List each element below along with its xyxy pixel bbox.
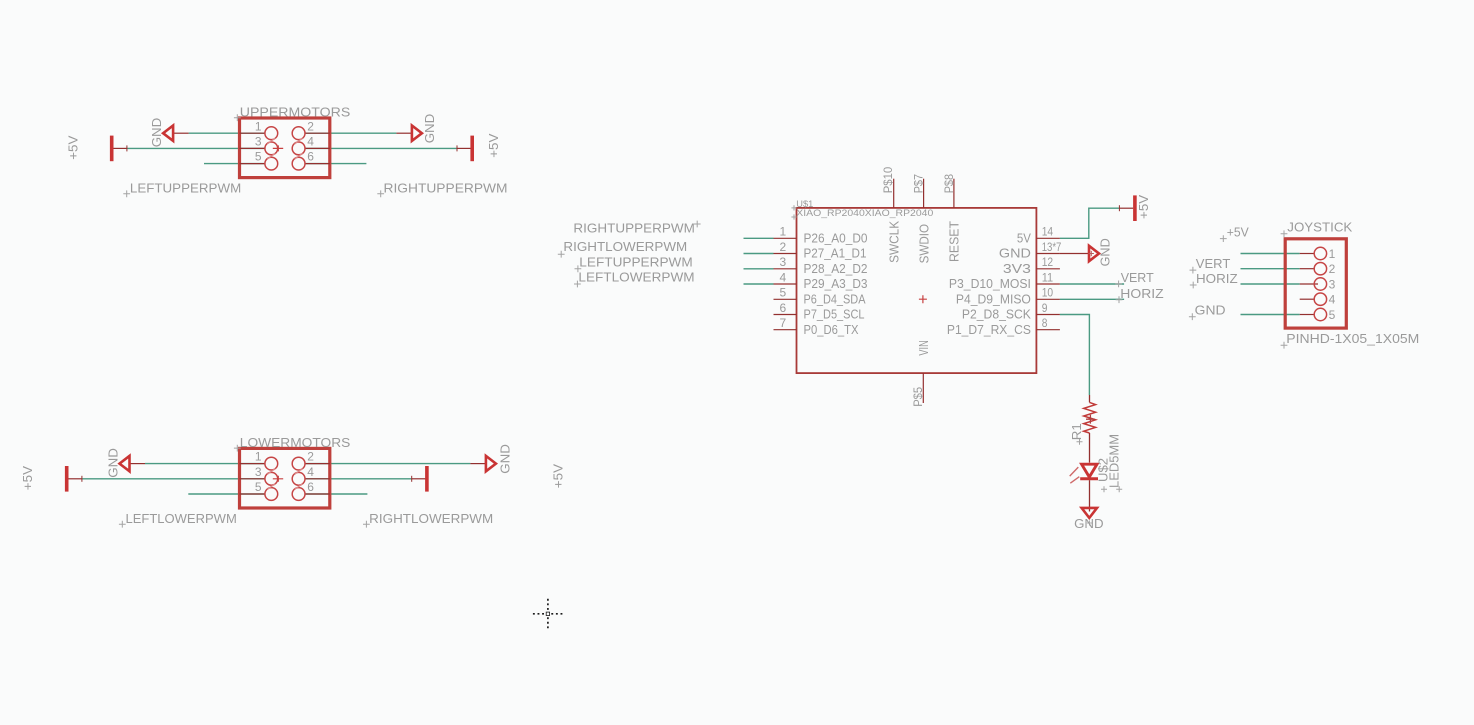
U$1 pin 6 P7_D5_SCL xyxy=(774,314,797,316)
wire net RIGHTUPPERPWM to U$1 pin 1 xyxy=(744,237,774,239)
svg-text:+5V: +5V xyxy=(65,135,80,160)
svg-text:GND: GND xyxy=(1074,516,1104,531)
pin 4 of UPPERMOTORS xyxy=(305,147,330,149)
svg-text:PINHD-1X05_1X05M: PINHD-1X05_1X05M xyxy=(1286,331,1419,346)
svg-text:VIN: VIN xyxy=(916,340,931,355)
svg-text:2: 2 xyxy=(1329,262,1336,276)
svg-text:HORIZ: HORIZ xyxy=(1196,271,1238,286)
connector JOYSTICK body xyxy=(1285,239,1346,328)
svg-text:12: 12 xyxy=(1042,255,1054,269)
svg-text:LOWERMOTORS: LOWERMOTORS xyxy=(240,435,351,450)
wire LEFTLOWERPWM net row3 left xyxy=(188,493,265,495)
U$1 pin 14 5V xyxy=(1036,237,1060,239)
svg-text:2: 2 xyxy=(307,119,314,133)
net label GND (at JOYSTICK) xyxy=(1189,313,1196,320)
svg-text:SWCLK: SWCLK xyxy=(887,221,902,263)
svg-text:P$5: P$5 xyxy=(911,387,925,407)
wire net +5V from U$1 pin 14 xyxy=(1060,208,1120,238)
svg-text:3: 3 xyxy=(255,465,262,479)
net label LEFTUPPERPWM (at U$1) xyxy=(575,265,582,272)
wire LEFTUPPERPWM net row3 left xyxy=(204,163,265,165)
svg-text:1: 1 xyxy=(1329,247,1336,261)
svg-text:6: 6 xyxy=(779,301,786,315)
pin 1 of LOWERMOTORS xyxy=(240,463,265,465)
svg-text:11: 11 xyxy=(1042,270,1054,284)
svg-text:P1_D7_RX_CS: P1_D7_RX_CS xyxy=(947,322,1031,337)
net label HORIZ (at JOYSTICK) xyxy=(1190,282,1197,289)
wire +5V net UPPERMOTORS row2 left xyxy=(127,147,265,149)
svg-text:+5V: +5V xyxy=(1227,224,1249,239)
part origin cross LOWERMOTORS xyxy=(273,476,283,482)
wire net RIGHTLOWERPWM to U$1 pin 2 xyxy=(744,253,774,255)
svg-text:P$8: P$8 xyxy=(942,174,956,194)
svg-text:GND: GND xyxy=(1195,302,1226,317)
pin 2 of LOWERMOTORS xyxy=(305,463,330,465)
svg-text:3: 3 xyxy=(779,255,786,269)
JOYSTICK pin 1 xyxy=(1300,253,1315,255)
pin 2 of UPPERMOTORS xyxy=(305,132,330,134)
svg-text:5: 5 xyxy=(255,480,262,494)
svg-text:GND: GND xyxy=(1097,238,1112,266)
power symbol +5V right of LOWERMOTORS xyxy=(412,478,427,480)
svg-text:P26_A0_D0: P26_A0_D0 xyxy=(804,231,868,246)
svg-text:7: 7 xyxy=(779,316,786,330)
value XIAO_RP2040XIAO_RP2040 xyxy=(791,214,796,219)
U$1 pin 7 P0_D6_TX xyxy=(774,329,797,331)
connector LOWERMOTORS body xyxy=(240,448,330,508)
U$1 top pin P$10 xyxy=(893,179,895,208)
origin crosshair xyxy=(533,599,563,629)
wire net GND to JOYSTICK pin 5 xyxy=(1241,314,1300,316)
svg-text:6: 6 xyxy=(307,480,314,494)
LED U$2 LED5MM xyxy=(1082,464,1097,477)
svg-text:1: 1 xyxy=(255,119,262,133)
svg-text:4: 4 xyxy=(307,465,314,479)
JOYSTICK pin 2 xyxy=(1300,268,1315,270)
power symbol +5V left of LOWERMOTORS xyxy=(67,478,82,480)
pin 1 of UPPERMOTORS xyxy=(240,132,265,134)
svg-text:14: 14 xyxy=(1042,225,1054,239)
wire net HORIZ from U$1 pin 10 xyxy=(1060,298,1124,300)
svg-text:RIGHTLOWERPWM: RIGHTLOWERPWM xyxy=(369,511,493,526)
ground symbol GND at U$1 pin 13 xyxy=(1060,253,1089,255)
pin junction marks LOWERMOTORS xyxy=(267,469,275,475)
pin 6 of UPPERMOTORS xyxy=(305,163,330,165)
JOYSTICK pin 5 xyxy=(1300,314,1315,316)
net label LEFTLOWERPWM xyxy=(119,521,126,528)
svg-text:5: 5 xyxy=(255,150,262,164)
power symbol +5V right of UPPERMOTORS xyxy=(457,147,472,149)
svg-text:RIGHTUPPERPWM: RIGHTUPPERPWM xyxy=(573,221,695,236)
svg-text:5: 5 xyxy=(1329,308,1336,322)
svg-text:P2_D8_SCK: P2_D8_SCK xyxy=(962,307,1031,322)
ground symbol GND left of LOWERMOTORS xyxy=(130,463,145,465)
connector JOYSTICK title label xyxy=(1281,230,1288,237)
svg-text:10: 10 xyxy=(1042,286,1054,300)
U$1 pin 13*7 GND xyxy=(1036,253,1060,255)
svg-text:3V3: 3V3 xyxy=(1003,261,1031,276)
svg-text:+5V: +5V xyxy=(20,466,35,491)
svg-text:GND: GND xyxy=(105,448,120,478)
wire GND net UPPERMOTORS row1 left xyxy=(189,132,265,134)
svg-text:VERT: VERT xyxy=(1121,270,1154,285)
wire net VERT from U$1 pin 11 xyxy=(1060,283,1124,285)
connector UPPERMOTORS title label xyxy=(234,114,241,121)
refdes U$1 xyxy=(791,205,796,210)
U$1 pin 3 P28_A2_D2 xyxy=(774,268,797,270)
svg-text:SWDIO: SWDIO xyxy=(917,224,932,264)
svg-text:P$10: P$10 xyxy=(881,166,895,193)
svg-text:RESET: RESET xyxy=(947,221,962,262)
U$1 top pin P$8 xyxy=(953,179,955,208)
net label VERT (at JOYSTICK) xyxy=(1190,267,1197,274)
wire RIGHTUPPERPWM net row3 right xyxy=(305,163,366,165)
svg-text:VERT: VERT xyxy=(1196,256,1231,271)
svg-text:3: 3 xyxy=(1329,277,1336,291)
svg-text:4: 4 xyxy=(779,270,786,284)
ground symbol GND left of UPPERMOTORS xyxy=(173,132,188,134)
U$1 pin 12 3V3 xyxy=(1036,268,1060,270)
U$1 top pin P$7 xyxy=(923,179,925,208)
svg-text:LED5MM: LED5MM xyxy=(1107,434,1122,488)
svg-text:RIGHTLOWERPWM: RIGHTLOWERPWM xyxy=(563,239,687,254)
svg-text:RIGHTUPPERPWM: RIGHTUPPERPWM xyxy=(384,181,508,196)
power symbol +5V (at U$1) xyxy=(1119,207,1133,209)
U$1 pin 2 P27_A1_D1 xyxy=(774,253,797,255)
U$1 pin 10 P4_D9_MISO xyxy=(1036,298,1060,300)
connector UPPERMOTORS body xyxy=(240,118,330,178)
svg-text:P29_A3_D3: P29_A3_D3 xyxy=(804,276,868,291)
value PINHD-1X05_1X05M xyxy=(1281,342,1288,349)
wire +5V net LOWERMOTORS row2 left xyxy=(82,478,265,480)
svg-text:R1: R1 xyxy=(1069,423,1084,440)
svg-text:4: 4 xyxy=(307,135,314,149)
U$1 pin 9 P2_D8_SCK xyxy=(1036,314,1060,316)
svg-text:P28_A2_D2: P28_A2_D2 xyxy=(804,261,868,276)
U$1 pin 1 P26_A0_D0 xyxy=(774,237,797,239)
svg-text:P$7: P$7 xyxy=(912,174,926,194)
part origin cross UPPERMOTORS xyxy=(273,145,283,151)
svg-text:UPPERMOTORS: UPPERMOTORS xyxy=(240,105,351,120)
wire net LEFTLOWERPWM to U$1 pin 4 xyxy=(744,283,774,285)
svg-text:2: 2 xyxy=(307,450,314,464)
resistor R1 xyxy=(1089,395,1091,402)
svg-text:+5V: +5V xyxy=(486,133,501,158)
svg-text:LEFTUPPERPWM: LEFTUPPERPWM xyxy=(579,254,692,269)
JOYSTICK pin 4 xyxy=(1300,298,1315,300)
svg-text:1: 1 xyxy=(255,450,262,464)
svg-text:GND: GND xyxy=(149,118,164,148)
pin 3 of UPPERMOTORS xyxy=(240,147,265,149)
ground symbol GND right of UPPERMOTORS xyxy=(396,132,411,134)
wire GND net LOWERMOTORS row1 left xyxy=(145,463,265,465)
svg-text:JOYSTICK: JOYSTICK xyxy=(1287,220,1352,235)
svg-text:GND: GND xyxy=(498,444,513,474)
svg-text:6: 6 xyxy=(307,150,314,164)
wire LED cathode to GND xyxy=(1089,480,1091,511)
svg-text:GND: GND xyxy=(422,114,437,144)
svg-text:GND: GND xyxy=(999,246,1031,261)
net label LEFTLOWERPWM (at U$1) xyxy=(574,281,581,288)
svg-text:LEFTUPPERPWM: LEFTUPPERPWM xyxy=(130,181,241,196)
IC U$1 XIAO_RP2040 body xyxy=(797,208,1037,373)
U$1 pin 5 P6_D4_SDA xyxy=(774,298,797,300)
svg-text:LEFTLOWERPWM: LEFTLOWERPWM xyxy=(578,270,694,285)
wire net HORIZ to JOYSTICK pin 3 xyxy=(1241,283,1300,285)
net label LEFTUPPERPWM xyxy=(123,190,130,197)
pin 4 of LOWERMOTORS xyxy=(305,478,330,480)
svg-text:2: 2 xyxy=(779,240,786,254)
U$1 pin 4 P29_A3_D3 xyxy=(774,283,797,285)
pin 5 of LOWERMOTORS xyxy=(240,493,265,495)
svg-text:XIAO_RP2040XIAO_RP2040: XIAO_RP2040XIAO_RP2040 xyxy=(796,208,933,219)
wire +5V net UPPERMOTORS row2 right xyxy=(305,147,457,149)
svg-text:1: 1 xyxy=(779,225,786,239)
JOYSTICK pin 3 xyxy=(1300,283,1318,285)
svg-text:P4_D9_MISO: P4_D9_MISO xyxy=(956,292,1031,307)
pin 5 of UPPERMOTORS xyxy=(240,163,265,165)
net label +5V (at JOYSTICK) xyxy=(1220,235,1227,242)
U$1 pin 8 P1_D7_RX_CS xyxy=(1036,329,1060,331)
net label VERT (at U$1) xyxy=(1115,281,1122,288)
wire +5V net LOWERMOTORS row2 right xyxy=(305,478,412,480)
wire GND net UPPERMOTORS row1 right xyxy=(305,132,396,134)
wire GND net LOWERMOTORS row1 right xyxy=(305,463,470,465)
pin 6 of LOWERMOTORS xyxy=(305,493,330,495)
svg-text:+5V: +5V xyxy=(551,464,566,489)
svg-text:HORIZ: HORIZ xyxy=(1120,286,1163,301)
wire RIGHTLOWERPWM net row3 right xyxy=(305,493,367,495)
net label RIGHTLOWERPWM (at U$1) xyxy=(558,251,565,258)
svg-text:+5V: +5V xyxy=(1136,194,1151,219)
ground symbol GND right of LOWERMOTORS xyxy=(470,463,485,465)
U$1 bottom pin P$5 xyxy=(922,373,924,403)
svg-text:LEFTLOWERPWM: LEFTLOWERPWM xyxy=(126,511,237,526)
wire net N$1 from U$1 pin 9 to R1 xyxy=(1060,315,1090,396)
svg-text:P7_D5_SCL: P7_D5_SCL xyxy=(804,307,865,322)
ground symbol GND below LED xyxy=(1082,508,1097,518)
net label RIGHTUPPERPWM (at U$1) xyxy=(694,221,701,228)
svg-text:3: 3 xyxy=(255,135,262,149)
power symbol +5V left of UPPERMOTORS xyxy=(112,147,127,149)
net label RIGHTLOWERPWM xyxy=(363,521,370,528)
svg-text:P27_A1_D1: P27_A1_D1 xyxy=(804,246,867,261)
pin junction marks UPPERMOTORS xyxy=(267,138,275,144)
svg-text:5V: 5V xyxy=(1017,231,1031,246)
connector LOWERMOTORS title label xyxy=(234,445,241,452)
svg-text:8: 8 xyxy=(1042,316,1048,330)
wire net +5V to JOYSTICK pin 1 xyxy=(1241,253,1300,255)
svg-text:9: 9 xyxy=(1042,301,1048,315)
net label RIGHTUPPERPWM xyxy=(377,190,384,197)
wire net VERT to JOYSTICK pin 2 xyxy=(1241,268,1300,270)
svg-text:4: 4 xyxy=(1329,293,1336,307)
wire net LEFTUPPERPWM to U$1 pin 3 xyxy=(744,268,774,270)
net label HORIZ (at U$1) xyxy=(1116,296,1123,303)
U$1 pin 11 P3_D10_MOSI xyxy=(1036,283,1060,285)
svg-text:P6_D4_SDA: P6_D4_SDA xyxy=(804,292,866,307)
svg-text:13*7: 13*7 xyxy=(1042,240,1062,254)
svg-text:P3_D10_MOSI: P3_D10_MOSI xyxy=(949,276,1031,291)
U$1 origin cross xyxy=(919,295,927,303)
svg-text:5: 5 xyxy=(779,286,786,300)
pin 3 of LOWERMOTORS xyxy=(240,478,265,480)
svg-text:P0_D6_TX: P0_D6_TX xyxy=(804,322,859,337)
